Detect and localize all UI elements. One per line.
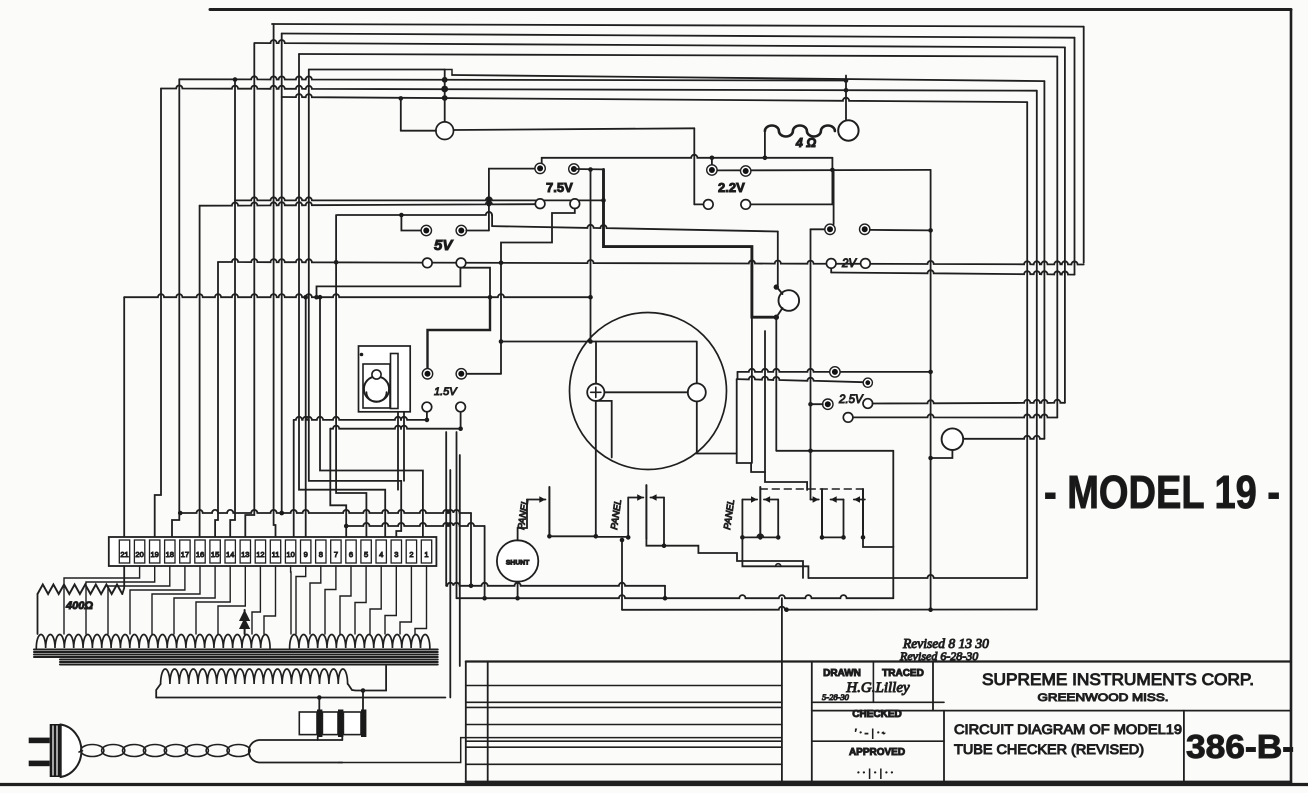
junction x930-y371 [928,370,933,375]
wire strip right vertical x459 [459,455,461,666]
wire x694 vertical [693,128,695,204]
terminal 1.5V left dark [422,369,432,379]
panel3 contact bar B [821,489,823,537]
junction y341-x590 [588,339,593,344]
wire line y578 [808,575,1027,578]
wire 7.5V right circle path [501,209,575,263]
wire 5V stub from bus297 [317,268,461,297]
wire x320 vertical [320,297,423,537]
junction panel3 A foot [740,535,745,540]
jack lower stem [778,308,783,316]
terminal 2V upper right dark [860,224,870,234]
svg-text:1.5V: 1.5V [434,386,458,398]
terminal strip body [109,537,437,566]
junction bus6-lamp stem [442,77,448,83]
wire line y169 left [574,168,604,170]
title table row 4a [466,740,782,742]
meter inner L detail [596,401,612,458]
svg-text:12: 12 [256,550,264,559]
wire cell5 to coil [130,566,185,634]
svg-text:400Ω: 400Ω [65,600,93,612]
wire x893 vertical [892,451,894,547]
terminal 2.2V right dark [741,166,751,176]
drawn traced divider [872,662,874,703]
wire panel3 bar3 step [863,537,893,598]
svg-text:18: 18 [166,550,174,559]
panel3 stem D [843,500,845,538]
wire cell21 to coil [415,566,427,634]
junction jack upper [774,284,779,289]
svg-text:21: 21 [120,550,128,559]
wire cell15 to coil [325,566,336,634]
fuse bar 3 [361,710,366,738]
wire bus y428 [330,426,460,429]
checked box right edge [943,711,945,782]
wire thick jack feed [604,169,774,317]
wire right circle lead [963,436,1044,439]
svg-text:SUPREME INSTRUMENTS CORP.: SUPREME INSTRUMENTS CORP. [982,671,1254,689]
wire x293 vertical [293,420,295,537]
fuse box 1 [299,712,317,735]
terminal 2V right circle [861,259,871,269]
junction y566 x778 [776,564,781,567]
jack circle [779,290,800,311]
junction bus526 start [344,524,349,529]
wire bus1 [272,24,1084,27]
title table row 2a [466,701,782,703]
wire 5V right lead [466,230,489,232]
panel3 contact bar C [862,489,864,537]
wire left vertical x254 to cell9 [245,43,254,537]
junction coil arrow [241,610,249,634]
wire line y585 [446,583,665,586]
plug dome [61,725,82,778]
wire panel3 y537 link2 [822,536,844,538]
terminal strip cells with numbers [119,540,129,563]
terminal 2.5V t5 circle [843,413,853,423]
wire 2.2V right circle lead [751,203,833,205]
wire panel3 y566 path [742,537,808,578]
wire bus y526 [346,523,484,526]
wire t3 stub [811,403,823,405]
line under checked [812,740,944,742]
wire 2V left terminal lead [811,228,827,230]
fuse bar 1 [317,710,322,738]
panel1 arrow [527,499,546,501]
wire line y450 [776,450,893,452]
wire bus4 [299,54,1057,57]
fuse bar 2 [338,710,343,738]
panel3 dashed link [760,488,863,490]
toggle switch mount dot [360,353,364,357]
meter inner link [605,391,688,393]
transformer primary coil section A [36,634,270,648]
junction panel2 left foot [626,535,631,540]
panel3 stem B [777,500,779,538]
svg-text:4: 4 [379,550,383,559]
svg-text:TRACED: TRACED [882,668,924,679]
wire x471 vertical [470,513,472,586]
toggle stem left [397,412,399,490]
wire fuse1 stem [318,698,320,710]
transformer core laminations [34,648,438,650]
title block left edge [465,662,467,782]
panel2 left arrow [628,497,643,499]
wire bus y379 link [737,372,739,379]
junction bus7-lamp stem [441,86,448,93]
title table col line [487,662,489,782]
svg-text:PANEL: PANEL [609,499,624,531]
wire 1.5V left circle stem [426,412,428,420]
title table row 5 [466,763,782,765]
wire panel1 to meter stem [549,535,595,537]
terminal 5V left circle [423,258,433,268]
junction y585 x471 [469,584,474,589]
toggle stem right [403,412,405,481]
wire bus y379 [737,376,863,382]
wire x751 vertical [751,317,753,463]
terminal 2V upper left dark [825,224,835,234]
panel2 left stem [627,498,629,538]
wire bus7 right vertical [1036,91,1038,610]
wire staircase step2 [751,463,765,472]
twisted cord [81,745,104,757]
resistor 400ohm zigzag [38,585,123,595]
wire line y598 [457,595,894,598]
wire x777 lower vertical [775,317,777,451]
wire 1.5V right circle stem [460,412,462,429]
panel2 contact bar [645,485,647,539]
meter plus terminal [587,384,604,401]
wire bus y513 [180,510,471,513]
panel3 arrow E [854,499,865,501]
wire cell11 to coil [264,566,276,634]
wire bus y200 [235,197,604,200]
terminal 7.5V left circle [535,199,545,209]
wire meter feed line [501,341,696,343]
title table row 3 [466,724,782,726]
junction x501 y341 [499,339,504,344]
divider before 386-B [1183,711,1185,782]
wire strip right vertical x450 [449,470,451,698]
junction 1.5V right stem [458,426,463,431]
title table row 4b [466,746,782,748]
wire meter right lower stem [697,401,737,453]
junction x336-y262 [334,260,339,265]
junction bus8-lamp riser [399,96,404,101]
fuse box 3 [343,712,361,735]
panel3 stem A [741,500,743,538]
sheet right border [1290,10,1293,784]
svg-text:5V: 5V [434,237,454,254]
wire capsule bottom run [338,738,782,763]
svg-text:17: 17 [181,550,189,559]
wire x456 vertical [456,432,458,598]
wire left vertical x336 to cell17 [336,215,366,537]
wire staircase step1 [737,454,751,464]
wire bus y215 corner [491,215,493,226]
resistor 400ohm left stem [37,594,39,634]
wire x694 to 2.2V circle [694,203,703,205]
wire cell19 to coil [385,566,396,634]
junction y610 x786 [784,607,789,612]
cord end capsule [249,740,343,763]
wire left vertical x161 to cell3 [155,89,161,538]
wire panel2 steps [646,539,803,578]
svg-text:10: 10 [286,550,294,559]
title table row 2b [466,706,782,708]
lamp circle [436,122,454,140]
meter circle [570,313,727,470]
terminal 4ohm circle [838,120,858,140]
plug prong upper [29,738,50,744]
wire line y417 [853,414,1057,417]
sheet bottom border [0,783,1308,786]
wire bus y262 [218,259,1084,265]
junction y450-x810 [808,449,813,454]
wire left vertical x199 to cell6 [199,206,201,537]
junction 2.2V stem top [710,156,715,161]
junction x320 top [318,295,323,300]
wire right circle stem [931,450,953,458]
terminal 7.5V left dark [535,163,545,173]
wire cell13 to coil [296,566,306,634]
wire bus2 [282,34,1075,38]
svg-text:APPROVED: APPROVED [849,747,905,758]
meter right terminal [688,383,706,401]
wire bus4 right vertical [1056,57,1058,418]
junction x235 top [233,77,238,82]
svg-text:2V: 2V [841,258,857,270]
svg-text:1: 1 [424,550,428,559]
wire bus5 right segment [452,75,1044,81]
wire shunt top path [518,500,527,541]
wire bus7 [161,85,1037,90]
wire x1036 elbow [622,607,1037,610]
toggle switch outer box [359,346,411,412]
wire x590 vertical [590,170,592,342]
junction x930-y230 [928,228,933,233]
svg-text:5: 5 [364,550,368,559]
wire shunt bottom stem [517,582,519,599]
sheet top border [210,8,1291,11]
svg-text:3: 3 [394,550,398,559]
wire cell10 to coil [252,566,260,634]
junction x281 bottom [279,511,284,516]
wire left vertical x124 [123,297,125,537]
wire fuse3 stem [362,691,364,710]
terminal right circle [942,428,964,450]
panel2 right arrow [650,497,664,499]
junction bus297 x316 [314,295,319,300]
wire x330 step [330,429,346,537]
wire cell20 to coil [400,566,411,634]
junction bus297 x490 [488,295,493,300]
wire left vertical x273 to cell11 [274,24,276,537]
wire panel3 y537 link1 [742,534,778,537]
svg-text:14: 14 [226,550,234,559]
junction panel1 contact foot [547,534,552,539]
wire left vertical x179 to cell4 [172,79,179,537]
wire left vertical x308 to cell19 [309,70,401,538]
junction y513 x180 [178,511,183,516]
wire x832 vertical [831,158,833,205]
panel3 arrow D [831,499,844,501]
svg-text:DRAWN: DRAWN [823,668,861,679]
svg-text:PANEL: PANEL [722,499,737,531]
wire line y169 right [717,169,931,172]
junction y610 x930 [928,607,933,612]
plug body bar [50,724,61,777]
terminal 1.5V right dark [456,369,466,379]
resistor 4ohm left stem [764,130,766,158]
wire 5V left feed [401,215,421,231]
wire bus y419 [294,417,427,420]
terminal 2.5V t1 dark [830,367,840,377]
terminal 2.5V t4 circle [863,399,873,409]
wire bus5 jog [445,70,452,76]
wire bus3 right vertical [1064,47,1066,402]
terminal 1.5V left circle [422,402,432,412]
wire cell16 to coil [340,566,351,634]
wire 7.5V left drop [541,158,543,164]
svg-text:2: 2 [409,550,413,559]
wire x622 vertical [621,540,623,610]
wire bus5 left segment [309,69,445,71]
wire meter right upper stem [696,342,698,384]
plug prong lower [29,761,50,767]
svg-text:CHECKED: CHECKED [852,709,901,720]
title table right edge [781,598,783,782]
wire x810 vertical [810,229,812,499]
svg-text:13: 13 [241,550,249,559]
terminal 2V left circle [826,259,836,269]
wire cell2 to coil [64,566,140,634]
wire lamp right lead [454,128,695,130]
wire bus y205 [200,201,535,205]
svg-text:6: 6 [349,550,353,559]
junction thick-bus200 [601,198,606,203]
wire panel2 link [596,536,628,538]
svg-text:5-28-30: 5-28-30 [822,692,850,702]
wire cell3 to coil [86,566,155,634]
wire left vertical x235 to cell8 [230,80,235,538]
svg-text:15: 15 [211,550,219,559]
wire bus y297 [124,294,590,297]
junction fuse3 tap [361,688,366,693]
wire bus y231 [492,225,778,232]
wire bus3 [255,40,1065,47]
terminal 2.5V t3 dark [823,399,833,409]
toggle switch knob circle [364,376,389,401]
wire staircase step3 [765,472,807,490]
svg-text:8: 8 [319,550,323,559]
wire left vertical x281 [281,34,283,514]
jack upper stem [778,289,783,295]
svg-text:7.5V: 7.5V [546,180,573,195]
svg-text:9: 9 [304,550,308,559]
junction panel3 D foot [841,535,846,540]
title block inner edge [811,662,813,782]
wire bus8 right vertical [1026,102,1028,578]
wire line y402 [873,400,1065,404]
svg-text:- MODEL 19 -: - MODEL 19 - [1044,466,1280,518]
terminal 7.5V right circle [570,199,580,209]
svg-text:GREENWOOD MISS.: GREENWOOD MISS. [1038,692,1169,704]
wire 1.5V right feed [467,373,502,375]
wire x484 vertical [484,526,486,598]
resistor 400ohm right stem [122,566,124,594]
resistor 4ohm top stem [845,76,847,121]
wire lamp left lead [401,130,436,132]
wire bus y215 [337,212,492,215]
wire capsule riser to fuse1 [317,737,319,740]
svg-text:· · | · | · ·: · · | · | · · [857,767,894,779]
toggle switch inner box [363,364,390,408]
panel3 contact bar A [759,487,761,537]
wire cell4 to coil [108,566,170,634]
junction panel3 bar1 foot [758,535,763,540]
junction y598 x484 [482,596,487,601]
panel3 arrow B [764,499,778,501]
wire bus8 [282,94,1027,102]
junction 4ohm left stem [763,156,768,161]
fuse box 2 [322,712,338,735]
wire cell6 to coil [152,566,200,634]
svg-text:SHUNT: SHUNT [506,560,530,567]
shunt circle [497,540,538,581]
junction x488-bus200 [487,198,492,203]
junction shunt foot [515,596,520,601]
wire cell18 to coil [370,566,381,634]
toggle switch knob inner [367,392,387,402]
wire x777 vertical [777,232,779,288]
junction y513 x281 [279,511,284,516]
junction bus6 end at 4ohm stem [844,78,849,83]
lamp stem [444,70,446,122]
svg-text:CIRCUIT DIAGRAM OF MODEL19: CIRCUIT DIAGRAM OF MODEL19 [954,722,1182,737]
terminal 2.2V right circle [741,200,751,210]
svg-text:TUBE CHECKER (REVISED): TUBE CHECKER (REVISED) [954,742,1144,757]
junction x488-bus205 [487,202,492,207]
junction panel3 bar3 foot [861,535,866,540]
wire x665 link [664,586,666,598]
svg-text:7: 7 [334,550,338,559]
secondary right end [348,666,386,691]
svg-text:H.G.Lilley: H.G.Lilley [845,680,910,696]
junction panel3 bar2 foot [820,535,825,540]
wire x446 vertical [445,432,447,586]
junction 5V feed [399,213,404,218]
junction meter stem foot [594,534,599,539]
title block bottom edge [466,781,1291,783]
junction bus8-lamp stem [442,95,448,101]
wire x737 vertical [736,379,738,453]
terminal 5V right circle [456,258,466,268]
wire bus y371 [738,369,931,372]
wire left vertical x218 to cell7 [215,262,218,537]
wire cell8 to coil [196,566,230,634]
terminal 7.5V right dark [569,164,579,174]
wire 2V left stem [830,268,832,272]
wire 1.5V left feed [428,297,491,368]
wire meter plus upper stem [595,342,597,385]
svg-text:386-B-: 386-B- [1186,728,1294,765]
junction y598 x665 [663,596,668,601]
wire bus2 right vertical [1074,38,1076,275]
panel3 arrow C [811,499,819,501]
wire bus6 [179,76,846,80]
